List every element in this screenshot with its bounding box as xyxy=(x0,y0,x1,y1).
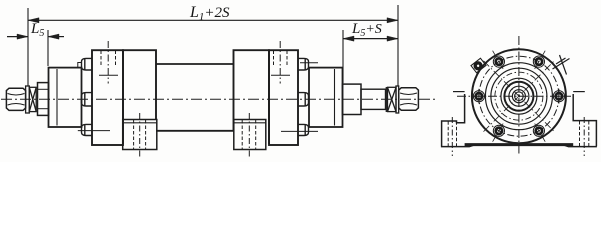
right foot hidden hole lines xyxy=(242,120,256,149)
left top tie-rod tip xyxy=(78,63,82,68)
right foot block xyxy=(234,120,266,150)
left rod collar xyxy=(38,83,49,116)
port cross line plate A' xyxy=(271,74,290,76)
port cross line plate A xyxy=(99,74,118,76)
bleed valve boss at 10:30 xyxy=(471,58,486,72)
left gland block xyxy=(49,68,82,127)
circle r18 xyxy=(501,78,537,114)
right foot centerline xyxy=(248,113,250,159)
left bottom tie-rod nut xyxy=(82,124,93,135)
bolt hole right (0deg) xyxy=(552,89,567,104)
right end plate A' xyxy=(269,50,298,145)
left rod thread block with X xyxy=(29,87,36,111)
left rod-end nut xyxy=(6,88,25,110)
bolt hole top-left (120deg) xyxy=(493,51,505,70)
extension line right (x=398) xyxy=(397,5,399,86)
rod inner circle r4.3 xyxy=(515,92,524,101)
left foot hidden hole xyxy=(448,121,456,146)
right top tie-rod line xyxy=(300,62,318,64)
right rod collar xyxy=(343,84,362,114)
bolt hole left (180deg) xyxy=(472,89,487,104)
left foot centerline xyxy=(139,113,141,159)
left washer xyxy=(26,86,30,113)
right middle rod boss xyxy=(298,93,309,106)
right piston rod xyxy=(361,89,386,109)
head block B xyxy=(123,50,156,144)
diagonal centerline 135deg xyxy=(484,61,555,132)
left foot centerline xyxy=(451,117,453,156)
end view horizontal centerline xyxy=(457,95,571,97)
corner boss at 1:30 xyxy=(553,55,570,75)
dimension line L1+2S xyxy=(28,18,398,23)
end view left foot xyxy=(441,94,476,147)
right washer xyxy=(396,86,399,113)
diagonal centerline 45deg xyxy=(484,61,555,132)
right bottom tie-rod nut xyxy=(298,124,309,135)
right top tie-rod nut xyxy=(298,58,309,70)
right foot centerline xyxy=(583,117,585,156)
right foot hidden hole xyxy=(580,121,589,146)
extension line left (x=28) xyxy=(27,8,29,86)
bolt hole bottom-right (300deg) xyxy=(533,122,545,142)
dimension line L5+S xyxy=(343,36,398,41)
circle r28 xyxy=(491,68,547,124)
svg-text:L5+S: L5+S xyxy=(351,21,382,39)
main axis centerline xyxy=(1,98,437,100)
port centerline plate A xyxy=(107,41,109,84)
left foot gusset xyxy=(453,91,465,93)
end view right foot xyxy=(562,94,597,147)
cylinder tube xyxy=(156,64,234,131)
port centerline plate A' xyxy=(279,41,281,84)
right rod-end nut xyxy=(399,88,419,111)
dimension L5 leaders with outside arrows xyxy=(7,34,64,39)
right rod thread block with X xyxy=(388,87,397,111)
svg-text:L5: L5 xyxy=(30,21,44,39)
left gland inner line xyxy=(56,69,58,126)
base slab xyxy=(465,143,574,146)
bolt circle (dash-dot) xyxy=(479,56,559,136)
end view vertical centerline xyxy=(518,36,520,156)
left end plate A xyxy=(92,50,123,145)
right foot gusset xyxy=(573,91,585,93)
extension line L5 right (x=48) xyxy=(47,30,49,66)
extension line L5+S left (x=343) xyxy=(342,30,344,83)
left bottom tie-rod line xyxy=(78,130,110,132)
left foot hidden hole lines xyxy=(134,120,146,149)
right gland block xyxy=(309,68,343,127)
flange outer circle xyxy=(472,49,566,143)
port hole hidden lines on plate A' xyxy=(274,51,288,67)
bolt hole top-right (60deg) xyxy=(533,51,545,70)
rod circle r6.5 xyxy=(512,90,525,103)
head block B' xyxy=(234,50,270,144)
circle r33.5 xyxy=(485,63,552,130)
port hole hidden lines on plate A xyxy=(101,51,116,67)
dash-dot circle r24 xyxy=(495,72,543,120)
right rod step line xyxy=(385,87,387,112)
right bottom tie-rod line xyxy=(281,130,318,132)
left collar step lines xyxy=(38,88,49,90)
right gland inner line xyxy=(334,69,336,126)
bolt hole bottom-left (240deg) xyxy=(493,122,505,142)
left top tie-rod nut xyxy=(82,58,93,70)
gland heavy circle r14.5 xyxy=(504,82,533,111)
left middle rod boss xyxy=(82,93,93,106)
left foot block xyxy=(123,120,157,150)
circle r10 xyxy=(509,86,529,106)
